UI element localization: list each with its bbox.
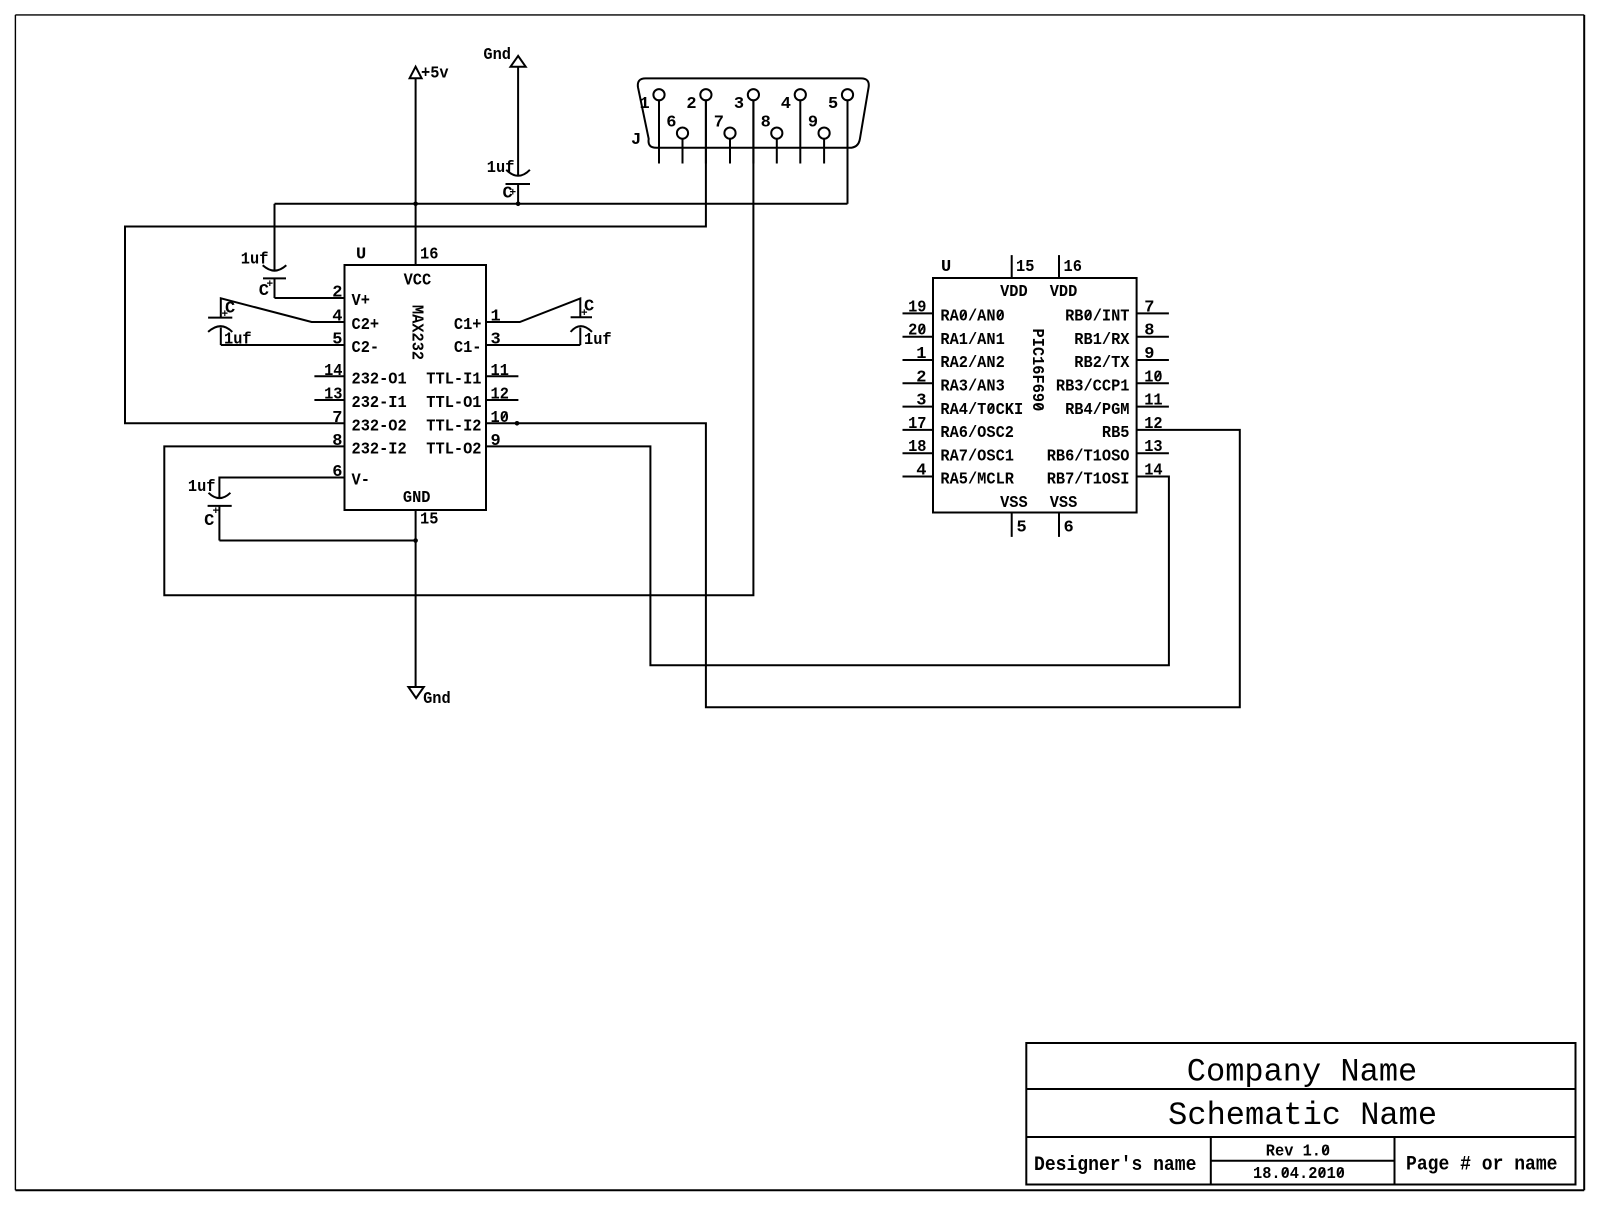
- svg-text:Gnd: Gnd: [423, 690, 451, 709]
- svg-text:+: +: [222, 309, 229, 321]
- svg-text:1uf: 1uf: [241, 251, 269, 270]
- svg-text:TTL-O2: TTL-O2: [426, 441, 481, 460]
- svg-text:8: 8: [332, 432, 342, 451]
- svg-text:5: 5: [1017, 519, 1027, 538]
- svg-text:2: 2: [332, 284, 342, 303]
- svg-text:15: 15: [420, 511, 438, 530]
- svg-text:C1+: C1+: [454, 316, 482, 335]
- svg-text:GND: GND: [403, 489, 431, 508]
- svg-text:2: 2: [916, 368, 926, 387]
- svg-text:1: 1: [639, 95, 649, 114]
- svg-text:RB3/CCP1: RB3/CCP1: [1056, 378, 1130, 397]
- svg-text:5: 5: [332, 331, 342, 350]
- svg-text:12: 12: [491, 386, 509, 405]
- svg-text:4: 4: [916, 462, 926, 481]
- svg-text:RB2/TX: RB2/TX: [1074, 354, 1130, 373]
- svg-text:1uf: 1uf: [188, 478, 216, 497]
- svg-text:C1-: C1-: [454, 339, 482, 358]
- svg-text:RB4/PGM: RB4/PGM: [1065, 401, 1129, 420]
- svg-text:3: 3: [734, 95, 744, 114]
- svg-text:16: 16: [420, 246, 438, 265]
- svg-text:V+: V+: [352, 292, 370, 311]
- svg-text:VCC: VCC: [404, 272, 432, 291]
- svg-text:C2-: C2-: [352, 339, 380, 358]
- svg-text:2: 2: [686, 95, 696, 114]
- svg-text:1: 1: [491, 308, 501, 327]
- svg-text:RA0/AN0: RA0/AN0: [940, 308, 1004, 327]
- svg-text:RA2/AN2: RA2/AN2: [940, 354, 1004, 373]
- svg-text:RA4/T0CKI: RA4/T0CKI: [940, 401, 1023, 420]
- svg-text:Company Name: Company Name: [1187, 1053, 1417, 1090]
- svg-text:VSS: VSS: [1050, 494, 1078, 513]
- svg-text:1uf: 1uf: [224, 331, 252, 350]
- svg-text:RB1/RX: RB1/RX: [1074, 331, 1130, 350]
- svg-text:8: 8: [761, 114, 771, 133]
- svg-text:4: 4: [332, 308, 342, 327]
- svg-text:+: +: [213, 506, 220, 518]
- svg-text:13: 13: [324, 386, 342, 405]
- svg-text:14: 14: [1144, 462, 1162, 481]
- svg-text:J: J: [631, 131, 641, 150]
- svg-text:11: 11: [491, 362, 509, 381]
- svg-text:+: +: [267, 279, 274, 291]
- svg-text:4: 4: [781, 95, 791, 114]
- svg-text:C2+: C2+: [352, 316, 380, 335]
- svg-text:19: 19: [908, 298, 926, 317]
- svg-text:16: 16: [1064, 258, 1082, 277]
- svg-text:9: 9: [808, 114, 818, 133]
- svg-text:TTL-O1: TTL-O1: [426, 394, 481, 413]
- svg-text:9: 9: [1144, 345, 1154, 364]
- svg-text:RA1/AN1: RA1/AN1: [940, 331, 1004, 350]
- svg-text:Designer's name: Designer's name: [1034, 1154, 1196, 1177]
- svg-text:Schematic Name: Schematic Name: [1168, 1097, 1437, 1134]
- svg-text:+5v: +5v: [421, 65, 449, 84]
- svg-text:RB6/T1OSO: RB6/T1OSO: [1047, 447, 1130, 466]
- svg-text:RA5/MCLR: RA5/MCLR: [940, 471, 1014, 490]
- svg-text:+: +: [510, 188, 517, 200]
- svg-text:RA7/OSC1: RA7/OSC1: [940, 447, 1014, 466]
- svg-text:18.04.2010: 18.04.2010: [1253, 1165, 1345, 1184]
- svg-text:8: 8: [1144, 322, 1154, 341]
- svg-text:9: 9: [491, 432, 501, 451]
- svg-text:1uf: 1uf: [584, 331, 612, 350]
- svg-text:PIC16F690: PIC16F690: [1027, 329, 1046, 412]
- svg-text:7: 7: [714, 114, 724, 133]
- svg-text:17: 17: [908, 415, 926, 434]
- svg-text:12: 12: [1144, 415, 1162, 434]
- svg-text:VSS: VSS: [1000, 494, 1028, 513]
- svg-text:3: 3: [491, 331, 501, 350]
- svg-text:VDD: VDD: [1050, 283, 1078, 302]
- svg-text:V-: V-: [352, 472, 370, 491]
- svg-text:7: 7: [332, 409, 342, 428]
- svg-text:MAX232: MAX232: [407, 305, 426, 360]
- svg-text:232-O2: 232-O2: [352, 418, 407, 437]
- svg-text:5: 5: [828, 95, 838, 114]
- svg-text:11: 11: [1144, 392, 1162, 411]
- svg-text:13: 13: [1144, 438, 1162, 457]
- svg-text:VDD: VDD: [1000, 283, 1028, 302]
- svg-text:6: 6: [666, 114, 676, 133]
- svg-text:7: 7: [1144, 298, 1154, 317]
- svg-text:RB7/T1OSI: RB7/T1OSI: [1047, 471, 1130, 490]
- svg-text:+: +: [581, 308, 588, 320]
- svg-text:15: 15: [1016, 258, 1034, 277]
- svg-text:RA3/AN3: RA3/AN3: [940, 378, 1004, 397]
- svg-text:18: 18: [908, 438, 926, 457]
- svg-text:RA6/OSC2: RA6/OSC2: [940, 424, 1014, 443]
- svg-text:RB0/INT: RB0/INT: [1065, 308, 1129, 327]
- svg-text:232-I1: 232-I1: [352, 394, 407, 413]
- svg-text:Page # or name: Page # or name: [1406, 1154, 1558, 1177]
- svg-text:232-O1: 232-O1: [352, 371, 407, 390]
- svg-text:6: 6: [1064, 519, 1074, 538]
- svg-text:TTL-I1: TTL-I1: [426, 371, 481, 390]
- svg-text:TTL-I2: TTL-I2: [426, 418, 481, 437]
- svg-text:6: 6: [332, 463, 342, 482]
- svg-text:Gnd: Gnd: [483, 46, 511, 65]
- svg-text:U: U: [941, 258, 951, 277]
- svg-text:RB5: RB5: [1102, 424, 1130, 443]
- svg-text:1: 1: [916, 345, 926, 364]
- svg-text:3: 3: [916, 392, 926, 411]
- svg-text:14: 14: [324, 362, 342, 381]
- svg-text:U: U: [356, 246, 366, 265]
- svg-text:1uf: 1uf: [487, 159, 515, 178]
- svg-text:Rev 1.0: Rev 1.0: [1266, 1143, 1330, 1162]
- svg-text:232-I2: 232-I2: [352, 441, 407, 460]
